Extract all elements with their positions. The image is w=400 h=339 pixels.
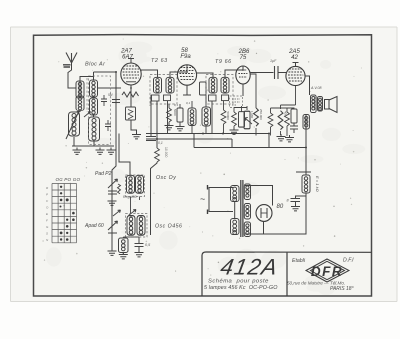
arrow through L3 bbox=[66, 111, 79, 139]
coil L9a bbox=[127, 216, 135, 236]
capacitor C4 bbox=[291, 193, 307, 205]
wire T2 secondary to V3 bbox=[225, 66, 243, 78]
paper scan edge bbox=[11, 27, 398, 302]
wire coil tops link bbox=[80, 77, 94, 82]
wire secondary column bbox=[93, 72, 96, 146]
power transformer secondary fil bbox=[244, 222, 250, 237]
svg-text:400: 400 bbox=[284, 111, 288, 116]
coil L8a bbox=[127, 175, 135, 193]
ground G5 bbox=[165, 123, 174, 130]
table row labels bbox=[46, 186, 49, 242]
ground G8 bbox=[277, 134, 286, 141]
output transformer bbox=[311, 95, 323, 113]
wire left coil column bbox=[74, 81, 80, 146]
trimmer Apad bbox=[108, 221, 118, 233]
wire V1 cathode bbox=[130, 85, 132, 107]
wire osc bottom bbox=[123, 236, 139, 238]
svg-text:~: ~ bbox=[200, 194, 205, 204]
ground G6 bbox=[176, 124, 185, 131]
diode marks bbox=[232, 99, 240, 105]
ground G12 bbox=[119, 252, 128, 259]
svg-text:Etabli: Etabli bbox=[292, 258, 306, 264]
coil T1 secondary bbox=[166, 77, 174, 93]
svg-text:412A: 412A bbox=[219, 254, 281, 280]
tube V3 2B6 bbox=[236, 66, 250, 84]
svg-text:D.F.I: D.F.I bbox=[343, 258, 354, 264]
wire R10 bbox=[233, 108, 235, 130]
svg-text:F9a: F9a bbox=[180, 54, 191, 60]
wire V2 plate to T2 bbox=[197, 73, 213, 78]
wire osc box links bbox=[112, 197, 140, 222]
wire trimmer stubs to bus bbox=[168, 101, 213, 134]
trimmer box T1a bbox=[152, 95, 160, 101]
IF transformer T1 dashed box bbox=[150, 75, 177, 105]
scan blotches bbox=[46, 42, 365, 296]
wire field top bbox=[296, 148, 311, 176]
svg-text:250.000: 250.000 bbox=[259, 109, 263, 120]
resistor R4 10000 bbox=[155, 148, 160, 162]
switch arrow S1 bbox=[113, 210, 121, 216]
capacitor C1 bbox=[146, 133, 156, 141]
wire V1 plate to T1 bbox=[141, 70, 158, 78]
coil L8b bbox=[136, 175, 144, 193]
coil L5 secondary PO bbox=[90, 98, 98, 115]
svg-text:10.000: 10.000 bbox=[164, 147, 168, 157]
svg-text:50,rue de Maistre — Tél.Mo.: 50,rue de Maistre — Tél.Mo. bbox=[287, 281, 345, 286]
wire R13 bbox=[250, 74, 256, 136]
ground G4 bbox=[132, 132, 141, 139]
resistor R3 cathode bbox=[200, 82, 207, 95]
svg-text:0,1: 0,1 bbox=[158, 141, 163, 145]
wire L7a bbox=[191, 101, 193, 134]
scan speckles bbox=[42, 38, 362, 281]
resistor R9 zigzag 50000 bbox=[221, 110, 226, 124]
resistor R1 heater zigzag bbox=[122, 92, 139, 97]
resistor R11 bbox=[239, 112, 245, 127]
power transformer primary upper bbox=[231, 186, 240, 202]
wire trimmer to ground bbox=[111, 194, 113, 200]
coil T2 secondary bbox=[221, 77, 229, 93]
coil L9b bbox=[137, 216, 145, 236]
svg-text:F: F bbox=[46, 219, 48, 223]
wire antenna lead bbox=[68, 63, 76, 88]
logo diamond DFR bbox=[306, 259, 349, 282]
wire primary mid link bbox=[234, 202, 236, 219]
ground G13 bbox=[135, 250, 144, 257]
ground G2 bbox=[96, 148, 105, 155]
paper tint bbox=[11, 27, 398, 302]
svg-text:S: S bbox=[46, 232, 48, 236]
table contact dots bbox=[60, 186, 75, 241]
power transformer primary lower bbox=[231, 219, 240, 235]
resistor R12 volume bbox=[244, 111, 250, 129]
junction dots bbox=[115, 69, 307, 148]
resistor R15 zigzag bbox=[278, 111, 283, 130]
antenna bbox=[66, 53, 77, 64]
svg-text:E = 1 kΩ: E = 1 kΩ bbox=[315, 176, 320, 192]
svg-text:Apad 60: Apad 60 bbox=[84, 223, 104, 229]
coil L2 antenna primary PO bbox=[76, 96, 84, 110]
resistor R2 bias box bbox=[126, 107, 136, 120]
speaker bbox=[325, 97, 338, 113]
resistor R5 zigzag bbox=[167, 108, 172, 122]
dashed gang line bbox=[86, 78, 88, 112]
wire L7b bbox=[205, 95, 207, 134]
wire screen drop bbox=[156, 101, 158, 139]
transformer core bbox=[241, 180, 243, 237]
ground G1 bbox=[73, 148, 82, 155]
resistor R18 osc grid bbox=[118, 184, 121, 194]
svg-text:T2 63: T2 63 bbox=[151, 58, 168, 64]
wire bottom bus power bbox=[245, 193, 306, 234]
svg-text:Rég.400: Rég.400 bbox=[123, 195, 137, 199]
trimmer Pad P2 bbox=[108, 179, 118, 194]
resistor R7 box bbox=[177, 108, 183, 122]
title block outline bbox=[202, 252, 372, 296]
tube V5 80 bbox=[256, 205, 272, 222]
coil L1 antenna primary bbox=[76, 81, 84, 98]
svg-text:Osc Oy: Osc Oy bbox=[156, 175, 176, 181]
svg-text:PARIS 18°: PARIS 18° bbox=[330, 286, 354, 292]
svg-text:6A7: 6A7 bbox=[122, 55, 133, 61]
capacitor C5 small bbox=[101, 95, 107, 106]
wire R2 to ground bbox=[131, 120, 137, 134]
wire HT to V5 plate bbox=[245, 186, 273, 206]
svg-text:5000: 5000 bbox=[173, 109, 177, 116]
coil L7b choke bbox=[202, 107, 211, 126]
tube V4 2A5 bbox=[286, 66, 305, 85]
coil L3 antenna GO variable bbox=[69, 112, 80, 136]
ground G9 bbox=[285, 135, 294, 142]
svg-text:5 lampes 456 Kc OC-PO-GO: 5 lampes 456 Kc OC-PO-GO bbox=[204, 285, 278, 291]
svg-text:Schéma pour poste: Schéma pour poste bbox=[208, 279, 269, 285]
dashed diode load box bbox=[230, 96, 243, 108]
wire cluster top h2 bbox=[271, 86, 296, 109]
osc coil box 2 bbox=[126, 214, 148, 238]
mains plug bars bbox=[207, 185, 209, 214]
wire R14 bbox=[270, 108, 272, 136]
bus line B2 bbox=[146, 138, 232, 140]
mains loop bbox=[209, 188, 233, 212]
field coil winding bbox=[303, 115, 309, 130]
resistor R13 zigzag bbox=[254, 108, 259, 126]
svg-text:75: 75 bbox=[240, 55, 247, 61]
trimmer box T1b bbox=[164, 95, 171, 101]
coil L6 secondary GO bbox=[89, 117, 100, 141]
switch arrow S2 bbox=[129, 210, 137, 216]
wire L10 bbox=[122, 237, 124, 254]
resistor R10 zigzag bbox=[232, 112, 237, 126]
wire T1 secondary to V2 grid bbox=[170, 65, 187, 78]
ground G10 bbox=[108, 199, 117, 206]
svg-text:1µF: 1µF bbox=[270, 59, 277, 63]
power transformer secondary mid bbox=[244, 204, 250, 220]
svg-text:0,1: 0,1 bbox=[186, 101, 191, 105]
capacitor C9 coupling bbox=[275, 66, 279, 79]
trimmer box T2a bbox=[209, 95, 217, 101]
resistor R17 box bbox=[291, 109, 297, 123]
wire V4 plate to output bbox=[305, 76, 310, 95]
wire grid feed to V1 bbox=[94, 72, 122, 88]
ground G14 bbox=[291, 204, 300, 211]
resistor R16 zigzag bbox=[285, 112, 290, 126]
wire padder column bbox=[112, 72, 116, 250]
svg-text:Osc O456: Osc O456 bbox=[155, 224, 182, 230]
svg-text:T9 66: T9 66 bbox=[215, 59, 232, 65]
border frame bbox=[34, 35, 372, 296]
svg-text:0,5: 0,5 bbox=[145, 243, 151, 247]
coil L4 secondary bbox=[90, 80, 98, 97]
wire plate decoupling drop bbox=[150, 95, 152, 133]
svg-text:5M: 5M bbox=[108, 93, 113, 97]
wire R9 bbox=[223, 101, 225, 134]
coil L7a choke bbox=[188, 108, 196, 126]
IF transformer T2 dashed box bbox=[206, 75, 233, 105]
svg-text:50000: 50000 bbox=[226, 112, 230, 121]
arrow on R12 bbox=[245, 117, 252, 124]
wire R5 bbox=[168, 104, 170, 124]
svg-text:1 MΩ: 1 MΩ bbox=[250, 111, 254, 119]
svg-text:Pad P2: Pad P2 bbox=[95, 171, 112, 177]
wire osc grid step bbox=[119, 134, 130, 176]
wire V5 filament down bbox=[263, 222, 265, 235]
wire cluster top h1 bbox=[234, 106, 247, 112]
coil T1 primary bbox=[154, 77, 162, 93]
wire V1 top cap bbox=[128, 59, 134, 64]
bus step down bbox=[194, 114, 306, 148]
svg-text:80: 80 bbox=[277, 204, 284, 210]
band switch table bbox=[52, 184, 77, 243]
switch arrow S3 bbox=[84, 112, 91, 118]
power transformer secondary HT bbox=[244, 184, 250, 200]
wire V4 top stub bbox=[293, 63, 299, 67]
bus line B1 bbox=[146, 133, 269, 135]
wire V3 cathode bbox=[242, 84, 244, 96]
svg-text:P: P bbox=[46, 193, 48, 197]
ground G3 bbox=[107, 148, 116, 155]
svg-text:OC PO GO: OC PO GO bbox=[56, 177, 81, 182]
svg-text:DFR: DFR bbox=[311, 264, 343, 279]
trimmer box T2b bbox=[222, 95, 229, 101]
svg-text:Bloc Ar: Bloc Ar bbox=[85, 62, 106, 68]
antenna connector blob bbox=[63, 65, 71, 67]
resistor R14 zigzag bbox=[268, 113, 273, 127]
tube V2 58 bbox=[177, 65, 196, 85]
wire R7 down bbox=[179, 104, 181, 125]
capacitor C3 bbox=[135, 237, 144, 252]
coil L10 cathode bbox=[119, 238, 129, 253]
wire bus vertical links bbox=[194, 134, 232, 148]
wire R16 bbox=[286, 108, 288, 136]
resistor R19 field 100 bbox=[302, 175, 310, 193]
osc coil box 1 bbox=[126, 175, 145, 197]
wire V2 cathode bbox=[183, 85, 191, 95]
wire R15 bbox=[280, 105, 282, 135]
capacitor C2 bbox=[290, 123, 298, 133]
wire R4 to osc drop bbox=[151, 139, 158, 235]
capacitor C7 on grid line bbox=[112, 100, 120, 103]
svg-text:42: 42 bbox=[291, 55, 298, 61]
svg-text:A.V.08: A.V.08 bbox=[310, 86, 322, 90]
capacitor C6 small bbox=[105, 120, 111, 131]
wire bottom bus left bbox=[72, 145, 114, 147]
tube V1 2A7 bbox=[121, 63, 141, 85]
wire C9 to V4 grid bbox=[278, 72, 287, 74]
ground G11 bbox=[108, 249, 117, 256]
coil T2 primary bbox=[209, 77, 217, 93]
ground G7 bbox=[230, 128, 239, 135]
svg-text:0,1: 0,1 bbox=[174, 103, 179, 107]
wire detector to C9 bbox=[251, 72, 274, 74]
